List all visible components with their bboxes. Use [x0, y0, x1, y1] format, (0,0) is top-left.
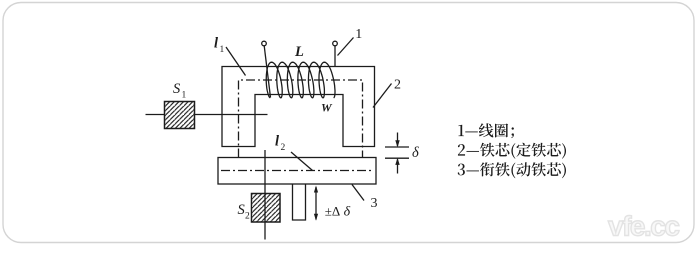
svg-text:l: l [214, 35, 218, 51]
air-gap dimension arrow lower [397, 159, 399, 173]
svg-text:l: l [275, 134, 279, 150]
wire: input lead through S1 [146, 114, 165, 116]
svg-text:2: 2 [394, 78, 401, 93]
leader line from label l2 to armature centerline [291, 152, 313, 171]
svg-text:2: 2 [281, 143, 286, 153]
svg-text:W: W [321, 101, 333, 115]
leader line to label 3 [352, 185, 364, 201]
leader line from label l1 to centerline [226, 47, 246, 76]
wire: right coil lead [334, 46, 336, 67]
arrowhead motion down [314, 214, 318, 221]
svg-text:δ: δ [412, 145, 419, 161]
svg-text:L: L [294, 44, 304, 60]
legend line 1: 1 - coil [458, 123, 513, 138]
svg-text:1: 1 [220, 45, 225, 55]
sensor block S1 (hatched) [165, 102, 195, 129]
arrowhead air-gap lower [395, 158, 399, 165]
svg-text:δ: δ [344, 205, 351, 220]
plunger rod below armature [293, 184, 306, 220]
svg-text:1: 1 [182, 91, 187, 101]
svg-text:vfe.cc: vfe.cc [608, 211, 679, 242]
wire: left coil lead [264, 46, 270, 98]
sensor block S2 (hatched) [252, 194, 281, 223]
motion arrow shaft ±delta [315, 187, 317, 220]
legend line 2: 2 - iron core (fixed) [458, 143, 566, 159]
armature motion axis vertical line [264, 150, 266, 240]
svg-text:3: 3 [371, 196, 378, 211]
armature centerline (dash-dot) [221, 170, 373, 172]
leader line to label 1 [338, 38, 354, 56]
arrowhead air-gap upper [395, 140, 399, 147]
svg-text:1: 1 [355, 27, 362, 42]
core magnetic-path centerline (dash-dot) [239, 80, 363, 158]
arrowhead motion up [314, 186, 318, 193]
armature bar (movable iron, item 3) [218, 158, 376, 185]
coil L winding (6 turns) [266, 62, 335, 98]
terminal circle right [333, 41, 338, 46]
svg-text:S: S [173, 81, 181, 97]
air-gap dimension extension ticks [385, 146, 409, 148]
terminal circle left [262, 41, 267, 46]
svg-text:±Δ: ±Δ [325, 204, 341, 219]
air-gap dimension arrow upper [397, 133, 399, 147]
iron core U-shape (fixed core, item 2) [222, 67, 375, 147]
leader line to label 2 [373, 84, 392, 108]
legend line 3: 3 - armature (movable) [458, 162, 566, 178]
svg-text:2: 2 [245, 211, 250, 221]
